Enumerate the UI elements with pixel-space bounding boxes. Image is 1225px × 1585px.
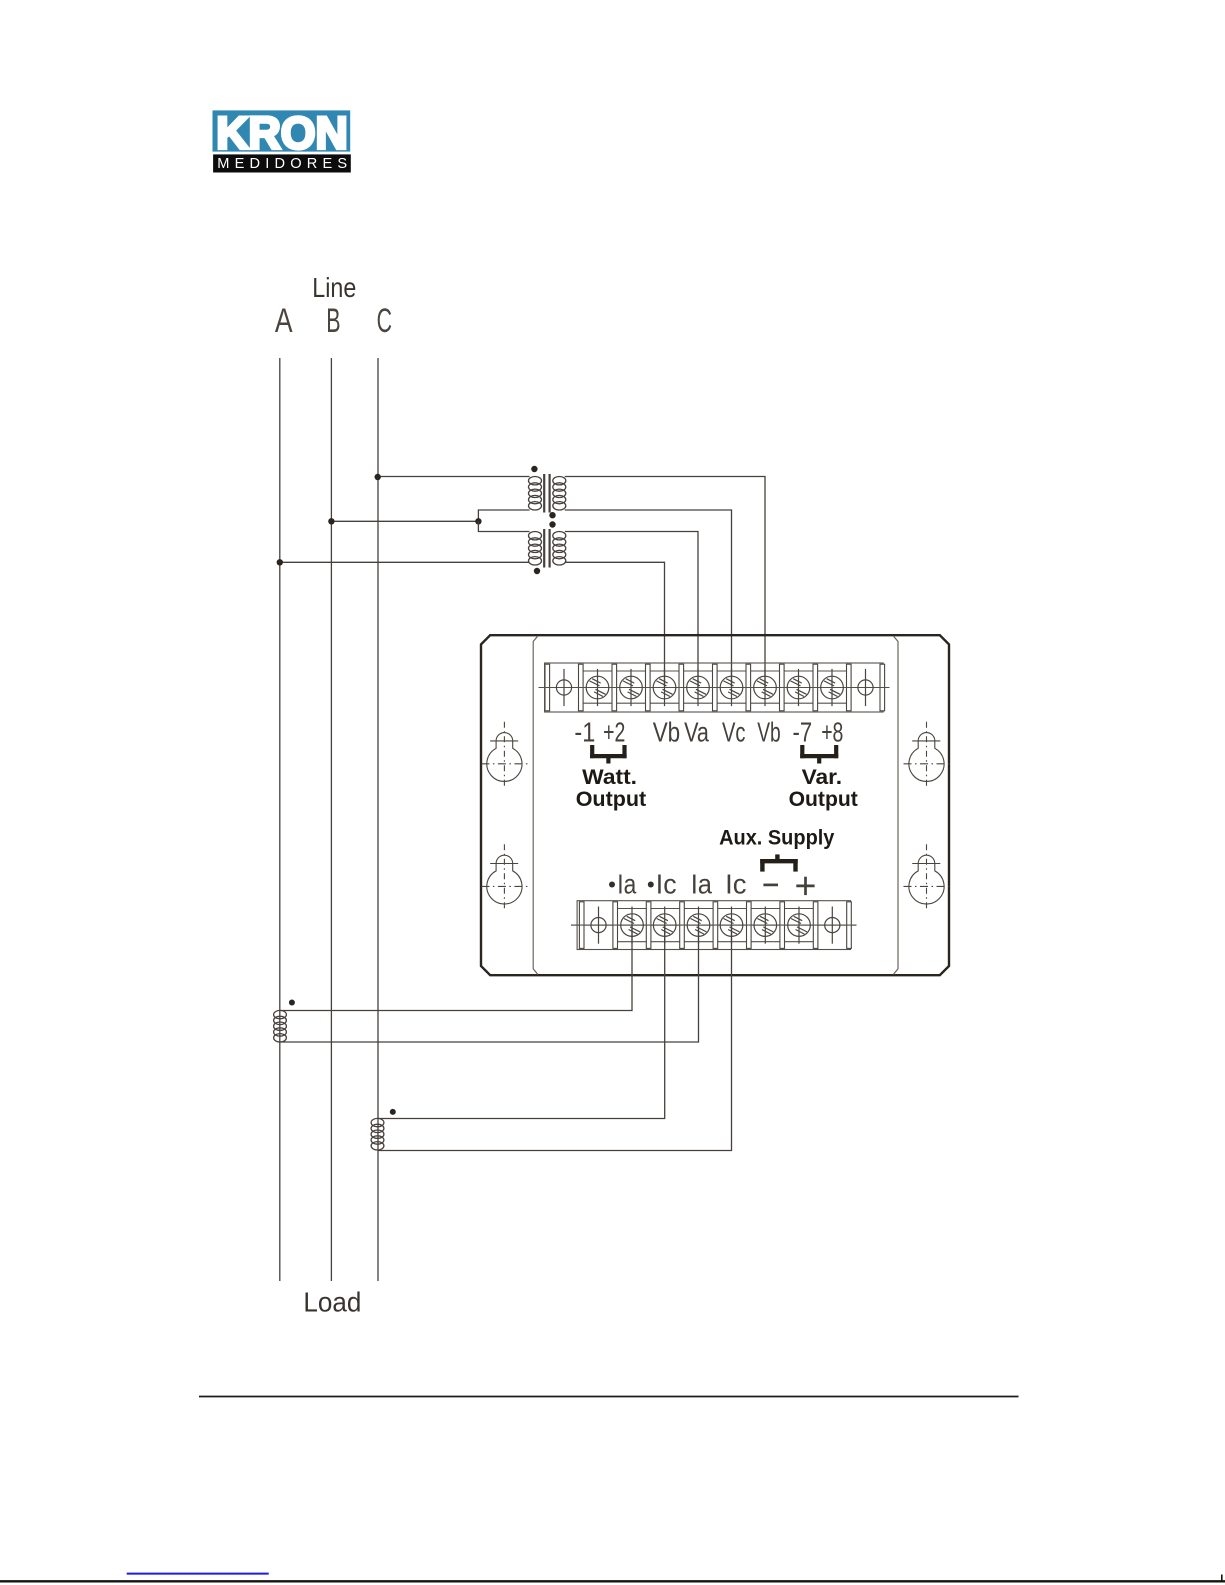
terminal +2 <box>620 669 643 706</box>
wire terminal Ia marked to CT1 <box>280 925 632 1010</box>
mounting keyhole upper-left <box>481 722 528 789</box>
svg-text:Ic: Ic <box>725 869 746 900</box>
transformer PT2 <box>529 529 566 568</box>
terminal Vc pin 5 <box>720 669 743 706</box>
polarity dot PT2 secondary <box>549 521 555 527</box>
terminal Va pin 4 <box>687 669 710 706</box>
mounting keyhole upper-right <box>904 722 951 789</box>
inner panel left edge <box>533 636 538 974</box>
separator line <box>199 1396 1019 1398</box>
polarity dot CT1 <box>289 1000 295 1006</box>
svg-text:+2: +2 <box>603 717 625 748</box>
terminal spare right TB1 <box>858 669 873 706</box>
junction dot B branch <box>475 518 481 524</box>
svg-text:Ia: Ia <box>617 869 636 900</box>
terminal aux plus <box>788 907 811 944</box>
polarity dot PT1 primary <box>531 466 537 472</box>
polarity dot CT2 <box>390 1109 396 1115</box>
current transformer CT2 on line C <box>371 1118 384 1150</box>
bracket Watt output <box>590 745 627 764</box>
svg-text:A: A <box>275 302 293 340</box>
svg-text:MEDIDORES: MEDIDORES <box>217 156 347 172</box>
mounting keyhole lower-left <box>481 844 528 911</box>
junction dot on line A <box>277 559 283 565</box>
svg-text:Va: Va <box>684 717 709 748</box>
wire PT1 secondary bottom to terminal Vc pin 5 <box>565 510 732 688</box>
terminal Ic <box>720 907 743 944</box>
svg-text:-7: -7 <box>793 717 813 748</box>
mounting keyhole lower-right <box>904 844 951 911</box>
terminal spare right TB2 <box>825 907 840 944</box>
svg-text:Output: Output <box>789 787 858 811</box>
wire line A to PT2 primary bottom <box>280 561 530 563</box>
svg-text:Vc: Vc <box>722 717 746 748</box>
svg-text:Aux. Supply: Aux. Supply <box>719 826 834 850</box>
polarity dot PT2 primary <box>534 568 540 574</box>
line B <box>330 358 332 1281</box>
TB1 dividers <box>545 664 885 711</box>
label dot Ia marked <box>609 882 615 888</box>
TB2 dividers <box>579 902 851 949</box>
svg-text:Ic: Ic <box>656 869 677 900</box>
transformer PT1 <box>529 474 566 513</box>
inner panel right edge <box>893 636 898 974</box>
terminal spare left TB1 <box>556 669 571 706</box>
line A <box>279 358 281 1281</box>
transducer box outline U1 <box>481 635 949 975</box>
wire PT1 primary bottom to B branch <box>478 510 529 521</box>
svg-text:KRON: KRON <box>216 108 348 159</box>
wire PT1 secondary top to terminal Vb pin 6 <box>565 477 765 688</box>
terminal Ic marked <box>653 907 676 944</box>
TB1 centerline over dividers <box>539 687 890 689</box>
bracket Aux supply <box>760 854 798 871</box>
TB2 centerline over dividers <box>571 924 857 926</box>
svg-text:+8: +8 <box>821 717 843 748</box>
page bottom border <box>0 1580 1225 1582</box>
polarity dot PT1 secondary <box>549 512 555 518</box>
terminal +8 <box>821 669 844 706</box>
svg-text:Ia: Ia <box>691 869 713 900</box>
svg-text:B: B <box>326 302 340 340</box>
wire terminal Ic to CT2 return <box>378 925 732 1150</box>
wire PT2 secondary top to terminal Va pin 4 <box>565 532 698 688</box>
wire terminal Ia to CT1 return <box>280 925 699 1042</box>
terminal strip TB2 body <box>571 901 857 950</box>
terminal strip TB1 body <box>539 663 890 712</box>
label minus <box>763 884 778 887</box>
wire line C to PT1 primary top <box>378 476 530 478</box>
svg-text:Var.: Var. <box>802 765 843 789</box>
svg-text:Vb: Vb <box>757 717 781 748</box>
page corner tick <box>1221 1575 1223 1582</box>
terminal -7 <box>787 669 810 706</box>
svg-text:-1: -1 <box>574 717 595 748</box>
KRON logo <box>213 108 351 173</box>
svg-text:Watt.: Watt. <box>582 765 637 789</box>
svg-text:Load: Load <box>303 1287 361 1318</box>
junction dot on line B <box>328 518 334 524</box>
label plus <box>796 877 814 895</box>
current transformer CT1 on line A <box>274 1010 287 1042</box>
wire B branch to PT2 primary top <box>478 521 529 531</box>
junction dot on line C <box>375 474 381 480</box>
terminal Vb pin 3 <box>653 669 676 706</box>
label dot Ic marked <box>648 882 654 888</box>
wire line B to branch point <box>331 520 478 522</box>
footer link underline <box>127 1573 269 1575</box>
terminal Ia <box>687 907 710 944</box>
terminal -1 <box>586 669 609 706</box>
wire PT2 secondary bottom to terminal Vb pin 3 <box>565 562 665 687</box>
svg-text:C: C <box>377 302 392 340</box>
terminal Ia marked <box>621 907 644 944</box>
terminal Vb pin 6 <box>754 669 777 706</box>
terminal spare left TB2 <box>591 907 606 944</box>
line C <box>377 358 379 1281</box>
bracket Var output <box>800 745 838 764</box>
terminal aux minus <box>754 907 777 944</box>
svg-text:Vb: Vb <box>653 717 681 748</box>
svg-text:Output: Output <box>576 787 647 811</box>
wire terminal Ic marked to CT2 <box>378 925 665 1118</box>
svg-text:Line: Line <box>312 272 356 303</box>
